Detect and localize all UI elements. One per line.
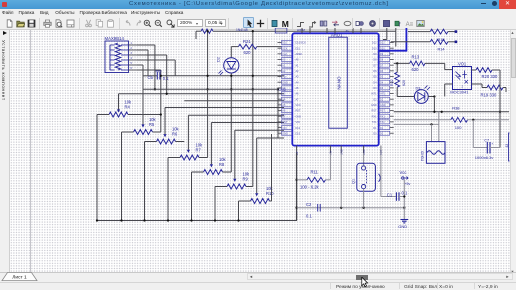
svg-text:D13/SCK: D13/SCK <box>296 42 307 45</box>
svg-text:D3: D3 <box>373 87 377 90</box>
svg-text:TX1: TX1 <box>380 121 385 124</box>
svg-text:SCK: SCK <box>282 47 287 50</box>
svg-text:Vref: Vref <box>282 53 287 56</box>
svg-text:R20 330: R20 330 <box>482 74 499 79</box>
svg-text:C2: C2 <box>306 202 312 207</box>
svg-text:GND: GND <box>282 81 288 84</box>
svg-text:GND: GND <box>371 104 377 107</box>
svg-text:R8: R8 <box>219 162 225 167</box>
svg-text:Q1: Q1 <box>351 179 355 184</box>
svg-text:R19 330: R19 330 <box>481 92 498 97</box>
svg-text:VIN: VIN <box>282 127 286 130</box>
svg-text:GND: GND <box>282 132 288 135</box>
svg-text:A≡: A≡ <box>405 22 413 28</box>
svg-text:0.1: 0.1 <box>402 190 408 195</box>
svg-text:R21: R21 <box>243 39 251 44</box>
svg-text:+: + <box>492 142 494 146</box>
svg-text:C1: C1 <box>387 192 393 197</box>
svg-text:A30M: A30M <box>297 28 305 32</box>
svg-text:INT1: INT1 <box>371 93 377 96</box>
svg-text:ПЭ-09: ПЭ-09 <box>421 151 425 161</box>
svg-text:D5: D5 <box>373 76 377 79</box>
svg-text:VIN: VIN <box>296 121 300 124</box>
svg-text:AREF: AREF <box>296 53 303 56</box>
svg-text:VCC: VCC <box>296 104 301 107</box>
svg-text:D1: D1 <box>373 127 377 130</box>
svg-text:MOC3041: MOC3041 <box>450 90 469 95</box>
svg-text:C5: C5 <box>148 75 154 80</box>
svg-text:D9: D9 <box>373 53 377 56</box>
svg-text:D10: D10 <box>282 42 287 45</box>
svg-text:D2: D2 <box>373 98 377 101</box>
svg-text:D2: D2 <box>217 57 221 62</box>
svg-text:TX1: TX1 <box>372 121 377 124</box>
svg-text:R14: R14 <box>438 48 445 52</box>
svg-text:VO1: VO1 <box>458 61 467 66</box>
svg-text:RST: RST <box>282 121 287 124</box>
svg-text:D10: D10 <box>372 47 377 50</box>
svg-text:1N4148: 1N4148 <box>236 28 248 32</box>
svg-text:A2: A2 <box>296 70 300 73</box>
svg-text:D8: D8 <box>373 59 377 62</box>
svg-text:D0: D0 <box>373 132 377 135</box>
svg-text:R15: R15 <box>438 38 445 42</box>
svg-text:RX1: RX1 <box>380 115 385 118</box>
svg-text:Лист 1: Лист 1 <box>12 274 27 280</box>
svg-text:2: 2 <box>462 85 464 89</box>
svg-text:A5: A5 <box>296 87 300 90</box>
svg-text:R11: R11 <box>311 169 319 174</box>
svg-text:GND: GND <box>398 224 407 229</box>
svg-text:D12: D12 <box>296 127 301 130</box>
svg-text:R7: R7 <box>196 147 202 152</box>
svg-text:A1: A1 <box>296 64 300 67</box>
svg-text:RST: RST <box>380 110 385 113</box>
svg-text:A4: A4 <box>296 81 300 84</box>
svg-text:M: M <box>281 19 288 28</box>
svg-text:R4: R4 <box>125 104 131 109</box>
svg-text:R10: R10 <box>266 191 274 196</box>
svg-text:A3: A3 <box>296 76 300 79</box>
svg-text:D11: D11 <box>296 47 301 50</box>
svg-text:D6: D6 <box>373 70 377 73</box>
svg-text:RST: RST <box>296 110 301 113</box>
svg-text:+5v: +5v <box>345 29 350 33</box>
svg-text:D4: D4 <box>373 81 377 84</box>
svg-text:NANO: NANO <box>337 76 342 90</box>
svg-text:0.1: 0.1 <box>163 76 169 81</box>
svg-text:C7: C7 <box>484 138 489 142</box>
svg-text:620: 620 <box>244 50 252 55</box>
svg-text:ARD1: ARD1 <box>331 32 343 37</box>
svg-text:R9: R9 <box>243 176 249 181</box>
svg-text:+5v: +5v <box>405 182 411 186</box>
svg-text:GND: GND <box>380 104 386 107</box>
svg-text:D3: D3 <box>416 87 421 91</box>
svg-text:A7: A7 <box>296 98 300 101</box>
svg-text:0.1: 0.1 <box>306 213 312 218</box>
svg-text:620: 620 <box>402 80 406 86</box>
svg-text:A6: A6 <box>296 93 300 96</box>
svg-text:100 - 6.2k: 100 - 6.2k <box>300 185 320 190</box>
svg-text:INT1: INT1 <box>380 93 386 96</box>
svg-text:D12: D12 <box>372 42 377 45</box>
svg-text:RX1: RX1 <box>372 115 377 118</box>
svg-text:1000x6.3v: 1000x6.3v <box>475 155 493 160</box>
svg-text:RST: RST <box>372 110 377 113</box>
svg-text:R5: R5 <box>149 122 155 127</box>
svg-text:D7: D7 <box>373 64 377 67</box>
svg-text:R38: R38 <box>452 105 460 110</box>
svg-text:D13: D13 <box>296 132 301 135</box>
svg-text:Vcc: Vcc <box>400 170 407 175</box>
svg-text:100: 100 <box>455 125 462 130</box>
svg-text:D12: D12 <box>380 42 385 45</box>
svg-text:R13: R13 <box>412 55 420 60</box>
svg-text:R22: R22 <box>390 79 394 86</box>
svg-text:R6: R6 <box>172 131 178 136</box>
svg-text:МАХ9В14: МАХ9В14 <box>105 36 125 41</box>
svg-text:f: f <box>398 21 400 28</box>
svg-text:GND: GND <box>296 115 302 118</box>
svg-text:620: 620 <box>412 67 420 72</box>
svg-text:A0: A0 <box>296 59 300 62</box>
